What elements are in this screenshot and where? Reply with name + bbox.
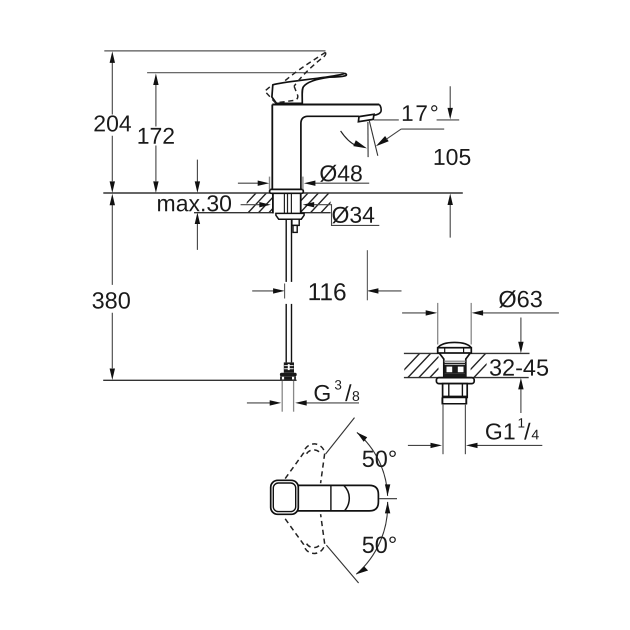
mounting nut below counter: [276, 213, 304, 219]
svg-text:Ø48: Ø48: [319, 160, 362, 186]
handle lever (solid): [272, 73, 347, 103]
svg-text:4: 4: [531, 426, 539, 442]
faucet shank through counter: [272, 192, 301, 213]
dim 172 vertical line: [155, 85, 157, 181]
50deg ray upper: [326, 418, 355, 454]
Ø34 leader: [314, 205, 379, 226]
hose connector step B: [293, 225, 297, 232]
drain dark band: [444, 374, 467, 378]
svg-text:8: 8: [352, 388, 360, 404]
svg-text:50°: 50°: [362, 446, 398, 472]
water stream 17deg line: [369, 121, 378, 156]
water stream vertical line: [367, 122, 369, 157]
svg-text:204: 204: [93, 110, 132, 136]
svg-text:32-45: 32-45: [489, 355, 549, 381]
dim G1 1/4: [408, 444, 542, 446]
116 extension line: [366, 250, 368, 300]
drain window band: [444, 365, 465, 374]
stream angle arc: [341, 131, 357, 146]
handle bar: [294, 485, 378, 511]
svg-text:116: 116: [308, 279, 347, 306]
50deg ray lower: [326, 545, 358, 583]
svg-text:172: 172: [137, 123, 175, 149]
hose connector step A: [292, 219, 299, 225]
faucet body column + spout: [272, 105, 381, 190]
drain counter hatching: [396, 353, 498, 379]
dim 116: [252, 290, 401, 292]
arc arrowheads: [385, 484, 390, 496]
50deg arc upper: [357, 432, 388, 496]
ref line second (172 upper reference): [147, 72, 344, 74]
pull rod / hose lower segment: [285, 304, 287, 363]
aerator: [358, 114, 374, 121]
faucet base plate: [270, 189, 304, 193]
drain cap dome: [438, 342, 471, 347]
drain counter bottom line: [404, 377, 529, 379]
drain tail pipe: [442, 404, 444, 454]
dashed handle position upper: [285, 444, 325, 483]
drain cap brim: [438, 348, 472, 353]
svg-text:G: G: [313, 380, 331, 406]
Ø63 extension lines: [437, 303, 439, 345]
svg-text:17°: 17°: [401, 101, 440, 126]
drain flange below counter: [436, 378, 474, 384]
dim 32-45: [520, 318, 522, 414]
50deg arc lower: [356, 502, 387, 574]
380 bottom reference line: [103, 379, 296, 381]
drain body through counter (white): [439, 353, 470, 378]
deck counter bottom line: [194, 212, 331, 214]
svg-text:380: 380: [92, 287, 131, 313]
dashed handle position lower: [285, 514, 325, 553]
max.30 leader arrow: [241, 204, 260, 206]
svg-text:Ø63: Ø63: [498, 286, 542, 312]
17deg leader lines: [374, 119, 459, 121]
hose end band: [280, 376, 296, 380]
dim Ø63: [402, 312, 559, 314]
drain hex section: [443, 384, 468, 398]
handle bar divider: [330, 485, 332, 511]
base plate extension ticks: [269, 177, 271, 190]
dim 380 vertical line: [111, 205, 113, 369]
dim Ø48 arrows: [238, 182, 369, 184]
hose end collar: [280, 373, 297, 377]
17deg leader arrowhead: [376, 136, 389, 146]
dim max30 vertical: [196, 160, 198, 250]
svg-text:3: 3: [334, 378, 342, 393]
svg-text:max.30: max.30: [157, 190, 232, 216]
pull rod / hose upper segment: [285, 219, 287, 282]
drain ring band: [441, 397, 443, 403]
svg-text:G1: G1: [485, 418, 516, 444]
stream arc arrowhead: [353, 140, 367, 148]
handle lever dashed (raised position): [265, 52, 326, 103]
ref line top (204 upper reference): [104, 50, 325, 52]
handle grip cap inner: [273, 483, 295, 512]
handle bar S-curve: [344, 486, 349, 511]
spout nose: [374, 105, 381, 116]
handle grip cap outer: [271, 480, 299, 514]
G3/8 extension lines: [281, 381, 283, 412]
deck hatching: [237, 193, 350, 214]
svg-text:Ø34: Ø34: [331, 202, 375, 228]
svg-text:/: /: [524, 418, 531, 444]
svg-text:50°: 50°: [362, 532, 398, 558]
hose end fitting thread: [284, 362, 294, 372]
dim G3/8: [247, 402, 359, 404]
dim 204 vertical line: [111, 63, 113, 182]
drain counter top line: [404, 352, 530, 354]
deck counter top line: [103, 192, 463, 194]
dim 105: [449, 86, 451, 237]
zero reference tick: [379, 498, 397, 500]
svg-text:105: 105: [433, 144, 471, 170]
